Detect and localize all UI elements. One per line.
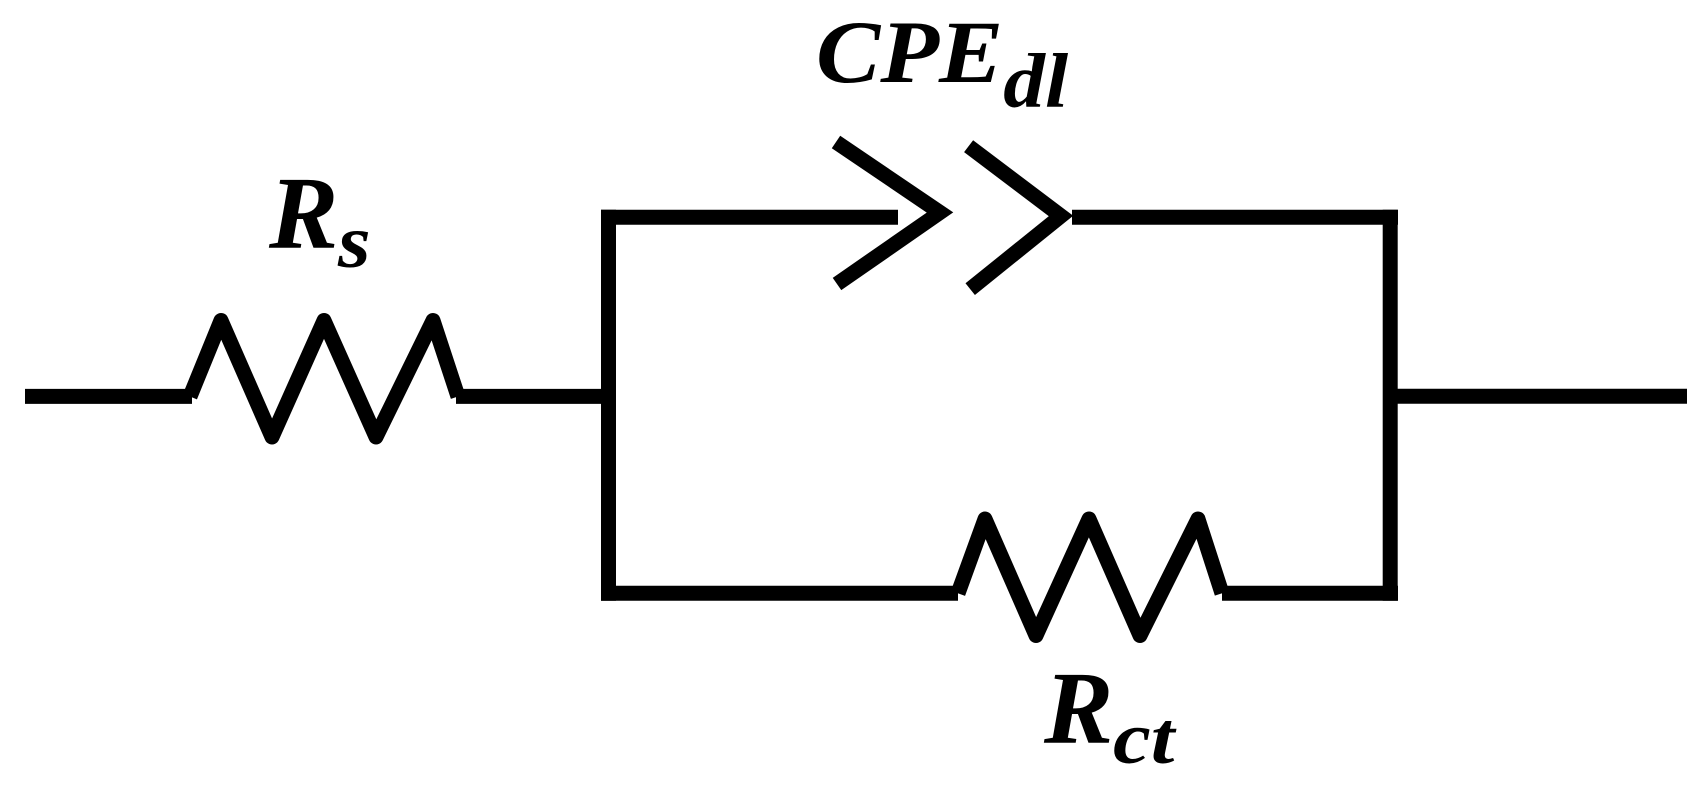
CPE_dl symbol: second chevron bbox=[969, 146, 1061, 289]
resistor Rs zigzag bbox=[190, 321, 458, 438]
wire: top branch right segment bbox=[1072, 210, 1398, 225]
node: left vertical bus of parallel block bbox=[601, 217, 616, 593]
CPE_dl symbol: first chevron bbox=[836, 142, 940, 284]
wire: bottom branch left segment bbox=[601, 586, 958, 601]
label Rs bbox=[269, 162, 368, 280]
wire: Rs to parallel block bbox=[456, 389, 616, 404]
label Rct bbox=[1044, 657, 1167, 776]
wire: top branch left segment bbox=[601, 210, 898, 225]
wire: left input lead bbox=[25, 389, 192, 404]
node: right vertical bus of parallel block bbox=[1383, 217, 1398, 593]
label CPE dl bbox=[816, 9, 1068, 120]
resistor Rct zigzag bbox=[958, 519, 1222, 636]
wire: right output lead bbox=[1390, 389, 1687, 404]
wire: bottom branch right segment bbox=[1222, 586, 1398, 601]
